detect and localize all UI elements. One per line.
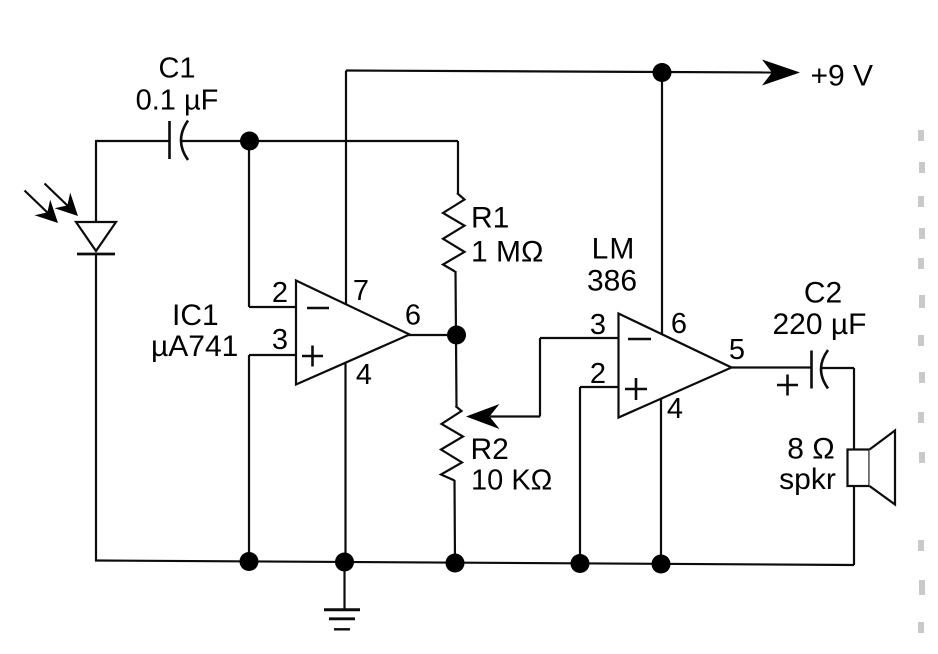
svg-text:8 Ω: 8 Ω bbox=[787, 433, 834, 466]
svg-text:R1: R1 bbox=[471, 202, 509, 235]
LM386 non-inverting input plus bbox=[625, 378, 647, 400]
R2 wiper arrowhead bbox=[466, 404, 500, 429]
svg-text:C2: C2 bbox=[804, 277, 842, 310]
wire IC1 pin6 output bbox=[408, 334, 457, 336]
LM386 inverting input minus bbox=[628, 338, 651, 341]
wire LM386 pin5 output to C2 bbox=[730, 366, 811, 368]
svg-text:5: 5 bbox=[729, 334, 745, 366]
wire photodiode cathode lead bbox=[95, 254, 97, 561]
wire R2 wiper horizontal bbox=[490, 415, 540, 417]
node rail junction LM386 pin4 bbox=[652, 555, 671, 574]
svg-text:2: 2 bbox=[272, 277, 288, 309]
capacitor C1 bbox=[170, 121, 189, 161]
wire bottom ground rail bbox=[95, 561, 854, 566]
wire top +9V rail bbox=[346, 71, 776, 73]
wire speaker bottom to rail bbox=[853, 486, 855, 565]
node rail junction pin4/ground bbox=[335, 553, 354, 572]
svg-text:1 MΩ: 1 MΩ bbox=[471, 236, 543, 269]
svg-text:IC1: IC1 bbox=[172, 299, 219, 332]
wire C1 left lead bbox=[95, 140, 169, 142]
svg-text:6: 6 bbox=[671, 308, 687, 340]
svg-text:2: 2 bbox=[590, 358, 606, 390]
svg-text:6: 6 bbox=[405, 300, 421, 332]
svg-text:3: 3 bbox=[590, 309, 606, 341]
wire C1 right lead to R1 column bbox=[182, 140, 458, 142]
svg-text:µA741: µA741 bbox=[151, 330, 238, 363]
svg-text:LM: LM bbox=[592, 233, 636, 266]
wire R2 bottom lead bbox=[453, 480, 456, 563]
wire LM386 pin3 horizontal bbox=[540, 337, 619, 339]
svg-text:R2: R2 bbox=[471, 433, 509, 466]
node rail junction pin3 bbox=[240, 552, 259, 571]
wire R1 bottom to node to R2 top bbox=[456, 271, 457, 406]
wire LM386 pin4 vertical to rail bbox=[660, 398, 662, 564]
wire LM386 pin6 vertical from +9V node bbox=[661, 73, 663, 336]
wire IC1 pin3 horizontal bbox=[249, 354, 297, 356]
C2 polarity plus bbox=[777, 375, 798, 396]
svg-text:3: 3 bbox=[272, 324, 288, 356]
svg-text:220 µF: 220 µF bbox=[773, 308, 867, 341]
node rail junction LM386 pin2 bbox=[571, 554, 590, 573]
svg-text:4: 4 bbox=[667, 393, 683, 425]
node +9V junction bbox=[653, 63, 672, 82]
svg-text:386: 386 bbox=[587, 265, 637, 298]
wire photodiode anode riser bbox=[95, 141, 97, 222]
light arrow 2 bbox=[45, 184, 79, 217]
resistor R1 bbox=[443, 193, 465, 272]
wire C2 right lead bbox=[822, 367, 854, 369]
svg-text:C1: C1 bbox=[158, 53, 195, 85]
wire IC1 pin3 vertical to ground rail bbox=[248, 355, 250, 562]
capacitor C2 bbox=[812, 350, 829, 389]
resistor R2 (potentiometer) bbox=[441, 406, 463, 481]
speaker LS1 bbox=[848, 431, 896, 505]
svg-text:+9 V: +9 V bbox=[811, 60, 874, 93]
wire IC1 pin2 horizontal bbox=[249, 306, 297, 308]
node R1/R2/pin6 junction bbox=[447, 326, 466, 345]
+9V arrowhead bbox=[762, 60, 800, 86]
wire IC1 pin4 vertical bbox=[344, 362, 346, 562]
wire C2 to speaker top bbox=[853, 368, 855, 450]
svg-text:0.1 µF: 0.1 µF bbox=[136, 85, 219, 117]
node rail junction R2 bbox=[446, 554, 465, 573]
wire R2 wiper riser bbox=[539, 338, 541, 417]
wire R1 top lead bbox=[457, 141, 459, 193]
wire LM386 pin2 horizontal bbox=[580, 386, 619, 388]
wire IC1 pin2 vertical from C1 node bbox=[248, 141, 250, 307]
wire pin7 vertical riser bbox=[345, 71, 347, 306]
svg-text:spkr: spkr bbox=[779, 463, 836, 496]
wire ground stem bbox=[343, 562, 345, 609]
op-amp U2 LM386 triangle bbox=[619, 314, 732, 418]
svg-text:10 KΩ: 10 KΩ bbox=[471, 465, 552, 497]
wire LM386 pin2 vertical to rail bbox=[579, 387, 581, 564]
node C1/pin2 junction bbox=[240, 132, 259, 151]
svg-text:7: 7 bbox=[353, 275, 369, 307]
ground bbox=[324, 610, 360, 630]
svg-text:4: 4 bbox=[356, 359, 372, 391]
photodiode D1 bbox=[76, 222, 116, 254]
op-amp U1 IC1 µA741 triangle bbox=[296, 281, 410, 385]
light arrow 1 bbox=[25, 191, 59, 224]
IC1 non-inverting input plus bbox=[302, 346, 323, 367]
IC1 inverting input minus bbox=[307, 307, 329, 310]
